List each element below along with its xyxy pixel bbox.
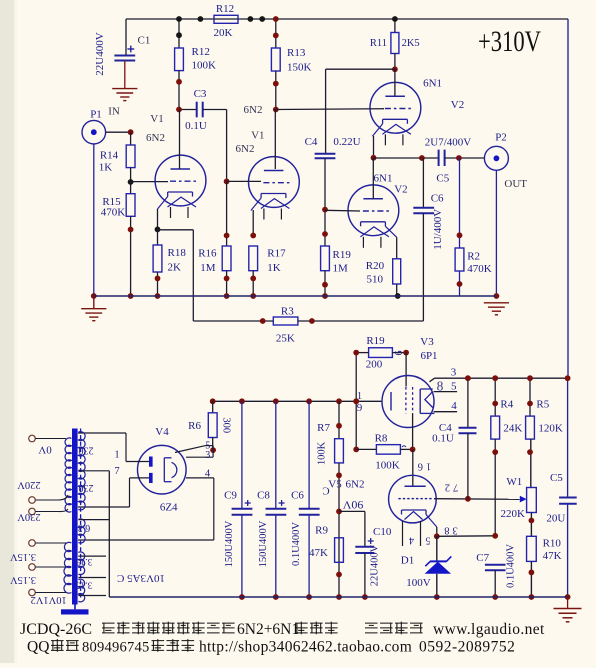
wire bottom ground rail bbox=[109, 596, 567, 598]
node V1a grid bbox=[128, 179, 134, 185]
svg-text:C3: C3 bbox=[194, 88, 207, 100]
svg-text:0.1U: 0.1U bbox=[432, 432, 454, 444]
svg-text:C5: C5 bbox=[436, 172, 449, 184]
wire V1b plate lead bbox=[274, 110, 276, 170]
wire output row y158 bbox=[374, 157, 439, 159]
svg-text:R17: R17 bbox=[267, 248, 286, 260]
resistor R12 100K bbox=[178, 19, 180, 48]
wire C3 to V1b grid bbox=[203, 109, 227, 111]
svg-text:100V: 100V bbox=[406, 577, 431, 589]
wire C1 top lead bbox=[125, 19, 127, 56]
svg-text:0.22U: 0.22U bbox=[333, 136, 360, 148]
svg-text:25K: 25K bbox=[276, 333, 295, 345]
svg-text:6: 6 bbox=[394, 351, 405, 356]
svg-text:0V: 0V bbox=[38, 443, 52, 455]
svg-text:C8: C8 bbox=[257, 490, 270, 502]
svg-text:V4: V4 bbox=[155, 426, 169, 438]
svg-text:38: 38 bbox=[441, 525, 458, 536]
tube V4 6Z4 rectifier bbox=[138, 445, 187, 494]
terminal 0V bbox=[29, 435, 36, 442]
diode D1 zener 100V bbox=[436, 536, 438, 561]
svg-text:R20: R20 bbox=[366, 260, 385, 272]
svg-text:D1: D1 bbox=[401, 555, 414, 567]
svg-text:R11: R11 bbox=[370, 38, 387, 49]
resistor R19 200 bbox=[355, 353, 357, 450]
transformer T1 core bbox=[72, 429, 78, 605]
capacitor C4 0.1U (psu) bbox=[467, 378, 469, 427]
resistor R7 100K bbox=[338, 401, 340, 438]
svg-text:20K: 20K bbox=[214, 27, 233, 39]
svg-text:P2: P2 bbox=[495, 132, 507, 144]
svg-text:C7: C7 bbox=[476, 552, 489, 564]
wire P2 to ground bbox=[495, 170, 497, 296]
svg-text:R3: R3 bbox=[281, 305, 294, 317]
svg-text:6N2+6N1: 6N2+6N1 bbox=[237, 621, 299, 638]
svg-text:20U: 20U bbox=[546, 512, 565, 524]
svg-text:1: 1 bbox=[357, 391, 362, 402]
svg-text:R8: R8 bbox=[375, 433, 388, 445]
svg-text:150U400V: 150U400V bbox=[258, 520, 269, 567]
wire V3 pin4 stub bbox=[434, 411, 458, 413]
svg-text:+310V: +310V bbox=[478, 25, 541, 58]
resistor R4 24K bbox=[494, 378, 496, 416]
svg-text:6Z4: 6Z4 bbox=[160, 502, 178, 514]
capacitor C5 2U7/400V bbox=[438, 150, 440, 166]
svg-text:6N1: 6N1 bbox=[423, 78, 442, 90]
wire P1 down to ground rail bbox=[93, 144, 95, 296]
svg-text:V2: V2 bbox=[451, 99, 464, 111]
svg-text:R2: R2 bbox=[467, 251, 480, 263]
resistor R14 1K bbox=[130, 132, 132, 145]
wire V1b cathode bbox=[252, 210, 254, 236]
ground (C1) bbox=[112, 88, 137, 90]
tube V1 second triode bbox=[249, 157, 300, 208]
tube V3 6P1 bbox=[382, 376, 434, 428]
svg-text:300: 300 bbox=[220, 417, 231, 433]
svg-text:7: 7 bbox=[114, 466, 119, 477]
resistor R2 470K bbox=[459, 158, 461, 248]
svg-text:1K: 1K bbox=[99, 162, 113, 174]
svg-text:6N2: 6N2 bbox=[146, 132, 165, 144]
svg-text:V2: V2 bbox=[394, 183, 407, 195]
svg-text:0.1U: 0.1U bbox=[185, 120, 207, 132]
svg-text:1K: 1K bbox=[267, 262, 281, 274]
tube V2 lower triode 6N1 bbox=[348, 185, 399, 236]
wire B+ right side drop bbox=[567, 19, 569, 378]
svg-text:6N2: 6N2 bbox=[346, 479, 365, 491]
ground (bottom right) bbox=[567, 597, 569, 609]
node grid V1b bbox=[224, 179, 230, 185]
svg-text:2K5: 2K5 bbox=[402, 38, 420, 49]
svg-text:10V3A5 C: 10V3A5 C bbox=[117, 572, 165, 584]
tube V5 6N2 bbox=[389, 475, 437, 523]
resistor R5 120K bbox=[529, 378, 531, 416]
capacitor C6 1U/400V bbox=[422, 158, 424, 208]
svg-text:2K: 2K bbox=[168, 262, 182, 274]
transformer secondary winding 230 b bbox=[78, 470, 85, 510]
wire V1a cathode bbox=[157, 209, 159, 229]
terminal 230V bbox=[29, 508, 36, 515]
wire V3 cathode down to V5 plate bbox=[412, 413, 414, 449]
svg-text:JCDQ-26C: JCDQ-26C bbox=[20, 621, 92, 638]
capacitor C9 150U400V bbox=[241, 401, 243, 508]
transformer secondary winding 6.3 bbox=[78, 519, 85, 543]
svg-text:90V: 90V bbox=[342, 498, 363, 512]
resistor R15 470K bbox=[130, 182, 132, 194]
svg-text:9: 9 bbox=[357, 402, 363, 414]
svg-text:10V1V2: 10V1V2 bbox=[31, 594, 67, 605]
svg-text:22U400V: 22U400V bbox=[94, 32, 106, 75]
svg-text:100K: 100K bbox=[317, 441, 328, 465]
wire 6.3V winding top stub bbox=[78, 519, 109, 521]
resistor R6 300 bbox=[212, 401, 214, 413]
svg-text:C10: C10 bbox=[373, 526, 392, 538]
svg-text:R14: R14 bbox=[100, 149, 119, 161]
svg-text:5: 5 bbox=[426, 535, 431, 546]
svg-text:http://shop34062462.taobao.com: http://shop34062462.taobao.com bbox=[199, 639, 412, 656]
tube V2 upper triode 6N1 bbox=[370, 82, 421, 133]
svg-text:R13: R13 bbox=[287, 47, 306, 59]
svg-text:R18: R18 bbox=[168, 247, 187, 259]
terminal 3.15V b bbox=[29, 564, 36, 571]
capacitor C5 20U bbox=[567, 378, 569, 497]
svg-text:1M: 1M bbox=[200, 262, 216, 274]
svg-text:V1: V1 bbox=[251, 130, 264, 142]
svg-text:R12: R12 bbox=[216, 3, 234, 15]
potentiometer W1 220K bbox=[527, 488, 537, 513]
svg-text:120K: 120K bbox=[538, 423, 563, 435]
wire V4 pin3 bbox=[186, 456, 213, 458]
svg-text:C9: C9 bbox=[224, 490, 237, 502]
svg-text:0.1U400V: 0.1U400V bbox=[291, 522, 302, 566]
terminal 3.15V a bbox=[29, 540, 36, 547]
svg-text:3: 3 bbox=[451, 366, 457, 378]
svg-text:6.3: 6.3 bbox=[78, 522, 91, 533]
svg-text:470K: 470K bbox=[101, 207, 126, 219]
svg-text:47K: 47K bbox=[543, 550, 562, 562]
svg-text:16: 16 bbox=[415, 461, 432, 472]
svg-text:6N2: 6N2 bbox=[244, 104, 263, 116]
wire 3.15 winding stubs bbox=[78, 555, 106, 557]
wire V3 pin3 to rail bbox=[430, 378, 435, 382]
svg-text:R12: R12 bbox=[192, 46, 210, 58]
svg-text:150U400V: 150U400V bbox=[224, 520, 235, 567]
svg-text:3.15: 3.15 bbox=[75, 556, 92, 566]
transformer secondary winding 3.15 a bbox=[78, 552, 84, 575]
resistor R9 47K bbox=[335, 538, 344, 563]
terminal 10V1V2 bbox=[29, 589, 36, 596]
resistor R3 25K bbox=[273, 317, 298, 325]
resistor R16 1M bbox=[226, 181, 228, 246]
svg-text:100K: 100K bbox=[375, 460, 400, 472]
wire V5 cathode bbox=[426, 515, 437, 528]
svg-text:3: 3 bbox=[205, 450, 210, 461]
svg-text:220K: 220K bbox=[500, 508, 525, 520]
wire C4 to R19 1M / V2b grid bbox=[324, 158, 326, 246]
svg-text:4: 4 bbox=[205, 469, 211, 480]
wire ground rail (upper) bbox=[94, 295, 497, 297]
svg-text:P1: P1 bbox=[90, 109, 102, 121]
capacitor C7 0.1U400V bbox=[485, 564, 506, 566]
resistor R17 1K bbox=[249, 246, 258, 271]
wire +310V top rail bbox=[126, 18, 568, 20]
wire B+ rail (after R6) y=401 bbox=[213, 400, 382, 402]
scan edge strip bbox=[0, 0, 14, 663]
svg-text:230: 230 bbox=[79, 445, 94, 456]
wire V2a plate lead bbox=[394, 69, 396, 96]
svg-text:510: 510 bbox=[367, 274, 384, 286]
svg-text:R16: R16 bbox=[198, 248, 217, 260]
svg-text:72: 72 bbox=[442, 482, 459, 493]
wire V1a plate lead bbox=[179, 110, 181, 170]
transformer primary winding 3.15V a bbox=[64, 542, 71, 567]
svg-text:W1: W1 bbox=[506, 476, 522, 488]
svg-text:150K: 150K bbox=[287, 62, 312, 74]
wire V1b grid lead bbox=[227, 180, 261, 182]
wire V2b cathode to R20 bbox=[396, 237, 398, 258]
transformer secondary winding 3.15 b bbox=[78, 579, 84, 602]
wire V4 pin1 anode from transformer bbox=[78, 432, 126, 434]
svg-text:C6: C6 bbox=[291, 490, 304, 502]
svg-text:220V: 220V bbox=[17, 479, 41, 490]
svg-text:6N2: 6N2 bbox=[236, 143, 255, 155]
svg-text:C5: C5 bbox=[550, 472, 563, 484]
svg-text:0592-2089752: 0592-2089752 bbox=[419, 639, 515, 656]
svg-text:1U/400V: 1U/400V bbox=[432, 209, 444, 250]
transformer primary winding 3.15V b bbox=[64, 566, 71, 593]
wire cathode V1a to R3 feedback bbox=[158, 229, 194, 231]
capacitor C8 150U400V bbox=[275, 401, 277, 508]
svg-text:6N1: 6N1 bbox=[374, 172, 393, 184]
svg-text:R6: R6 bbox=[188, 420, 201, 432]
svg-text:230: 230 bbox=[79, 482, 94, 493]
wire cathode row to C7 bbox=[437, 535, 495, 538]
tube V1 first triode bbox=[155, 155, 206, 206]
connector P2 bbox=[484, 146, 508, 170]
svg-text:www.lgaudio.net: www.lgaudio.net bbox=[433, 621, 545, 638]
resistor R11 2K5 bbox=[394, 19, 396, 33]
svg-text:R7: R7 bbox=[317, 422, 330, 434]
svg-text:3.15V: 3.15V bbox=[10, 574, 36, 585]
svg-text:8: 8 bbox=[437, 379, 444, 394]
capacitor C1 bbox=[114, 55, 135, 57]
svg-text:5: 5 bbox=[451, 380, 457, 392]
svg-text:470K: 470K bbox=[467, 263, 492, 275]
svg-text:3.15V: 3.15V bbox=[10, 551, 36, 562]
wire V2a grid lead bbox=[276, 108, 384, 111]
wire V2b grid lead bbox=[325, 209, 360, 212]
svg-text:4: 4 bbox=[409, 535, 414, 546]
svg-text:809496745: 809496745 bbox=[82, 640, 149, 656]
svg-text:OUT: OUT bbox=[504, 178, 527, 190]
svg-text:47K: 47K bbox=[309, 547, 328, 559]
svg-text:230V: 230V bbox=[17, 511, 41, 522]
svg-text:R19: R19 bbox=[333, 249, 352, 261]
capacitor C3 bbox=[179, 109, 197, 111]
svg-text:R19: R19 bbox=[366, 335, 385, 347]
wire V3 pin5 stub bbox=[434, 391, 458, 393]
svg-text:R10: R10 bbox=[543, 538, 562, 550]
resistor R20 510 bbox=[393, 259, 401, 284]
transformer secondary winding 230 a bbox=[78, 432, 85, 472]
wire V5 grid to W1 wiper bbox=[434, 498, 520, 501]
svg-text:22U400V: 22U400V bbox=[369, 544, 380, 586]
resistor R10 47K bbox=[527, 536, 537, 561]
wire V2a plate to C4 bbox=[326, 68, 395, 70]
wire V4 pin5 cathode to R6 bbox=[175, 446, 206, 453]
capacitor C6 0.1U400V (psu) bbox=[308, 401, 310, 508]
wire P1 to R14 bbox=[106, 131, 131, 133]
wire grid V1a bbox=[131, 181, 168, 183]
svg-text:V5: V5 bbox=[328, 479, 342, 491]
wire C1 to ground bbox=[124, 61, 126, 89]
svg-text:6P1: 6P1 bbox=[420, 350, 437, 362]
transformer primary winding 0-220-230V bbox=[65, 438, 71, 512]
svg-text:2U7/400V: 2U7/400V bbox=[425, 137, 472, 149]
svg-text:QQ: QQ bbox=[27, 639, 49, 656]
svg-text:3.15: 3.15 bbox=[75, 580, 92, 590]
connector P1 bbox=[82, 120, 106, 144]
resistor R13 150K bbox=[275, 19, 277, 48]
resistor R12 20K bbox=[214, 15, 238, 23]
svg-text:R9: R9 bbox=[315, 525, 328, 537]
svg-text:V1: V1 bbox=[150, 113, 163, 125]
svg-text:1: 1 bbox=[114, 449, 119, 460]
resistor R18 2K bbox=[157, 229, 159, 245]
svg-text:100K: 100K bbox=[192, 60, 217, 72]
svg-text:IN: IN bbox=[108, 106, 120, 118]
terminal 220V bbox=[29, 497, 36, 504]
wire V4 pin4 heater to transformer 6.3V bbox=[186, 477, 214, 479]
svg-text:R4: R4 bbox=[500, 399, 513, 411]
wire V2a cathode to output row bbox=[373, 136, 375, 158]
wire HV centre tap to ground bus bbox=[78, 470, 109, 472]
wire top rail pin dots bbox=[198, 16, 204, 22]
svg-text:R5: R5 bbox=[536, 399, 549, 411]
capacitor C4 0.22U bbox=[315, 153, 336, 155]
svg-text:C6: C6 bbox=[431, 193, 444, 205]
node V1b plate bbox=[273, 107, 279, 113]
wire V4 pin7 anode from transformer bbox=[78, 506, 130, 508]
resistor R19 1M bbox=[321, 246, 330, 271]
svg-text:C4: C4 bbox=[305, 136, 318, 148]
resistor R8 100K bbox=[353, 447, 359, 453]
svg-text:C1: C1 bbox=[138, 35, 151, 47]
svg-text:0.1U400V: 0.1U400V bbox=[506, 544, 517, 588]
svg-text:V3: V3 bbox=[420, 336, 434, 348]
svg-text:4: 4 bbox=[451, 400, 457, 412]
ground (input) bbox=[93, 296, 95, 309]
wire R19 to V3 screen bbox=[405, 353, 407, 387]
wire V2b plate lead bbox=[372, 158, 374, 199]
ground (P2/output) bbox=[484, 302, 509, 304]
node R12/C3 junction dots bbox=[176, 16, 182, 22]
svg-text:1M: 1M bbox=[333, 262, 349, 274]
capacitor C10 22U400V bbox=[339, 510, 365, 512]
svg-text:24K: 24K bbox=[503, 423, 522, 435]
svg-text:200: 200 bbox=[366, 358, 383, 370]
